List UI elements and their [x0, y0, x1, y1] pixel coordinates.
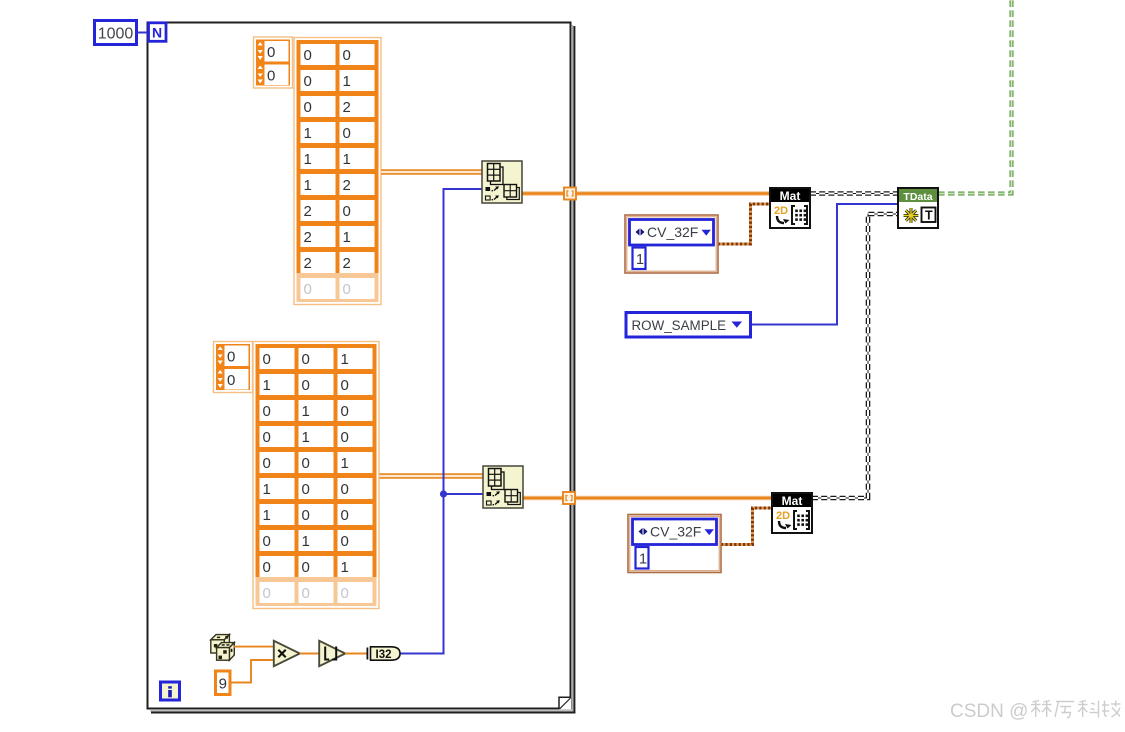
svg-text:0: 0	[302, 559, 310, 576]
svg-text:2D: 2D	[774, 205, 788, 217]
svg-text:1: 1	[343, 151, 351, 168]
svg-text:2: 2	[304, 255, 312, 272]
wire 1000 to N	[137, 32, 149, 34]
wire 9 to multiply	[230, 660, 274, 683]
svg-text:I32: I32	[376, 649, 392, 661]
svg-text:1: 1	[304, 125, 312, 142]
svg-text:0: 0	[341, 585, 349, 602]
svg-text:0: 0	[302, 455, 310, 472]
cluster constant K2 (CV_32F + 1)	[628, 515, 721, 573]
loop resize handle	[559, 697, 571, 709]
2D array constant A1 grid	[296, 40, 380, 303]
svg-text:1: 1	[302, 429, 310, 446]
svg-text:0: 0	[263, 455, 271, 472]
wire ROW_SAMPLE to TData	[751, 204, 899, 325]
svg-text:2: 2	[343, 99, 351, 116]
svg-text:0: 0	[304, 73, 312, 90]
svg-text:0: 0	[341, 429, 349, 446]
svg-text:0: 0	[267, 68, 275, 85]
svg-text:2: 2	[343, 177, 351, 194]
svg-text:0: 0	[341, 377, 349, 394]
wire array A2 to index node U2 (2D array)	[380, 474, 485, 478]
svg-text:TData: TData	[903, 191, 932, 203]
svg-text:0: 0	[302, 351, 310, 368]
svg-text:T: T	[925, 209, 933, 223]
svg-text:1: 1	[341, 455, 349, 472]
svg-text:9: 9	[219, 676, 227, 693]
wire Mat1 to TData (matrix chain)	[810, 193, 898, 195]
svg-text:0: 0	[227, 349, 235, 366]
wire cluster K1 to Mat1	[718, 204, 770, 244]
I32 conversion node	[367, 647, 400, 661]
svg-text:2: 2	[304, 203, 312, 220]
wire U2 to Mat2 (row array)	[523, 496, 772, 501]
svg-text:0: 0	[263, 429, 271, 446]
svg-text:1: 1	[636, 252, 644, 268]
index selector S2	[214, 342, 253, 393]
wire U1 to Mat1 (row array)	[522, 191, 770, 196]
svg-text:0: 0	[302, 377, 310, 394]
for-loop frame	[148, 23, 576, 714]
svg-text:0: 0	[227, 372, 235, 389]
svg-text:1: 1	[304, 177, 312, 194]
svg-text:1000: 1000	[98, 26, 134, 43]
svg-text:0: 0	[343, 47, 351, 64]
svg-text:1: 1	[343, 229, 351, 246]
svg-text:2: 2	[304, 229, 312, 246]
svg-text:2: 2	[343, 255, 351, 272]
svg-text:1: 1	[263, 507, 271, 524]
svg-text:0: 0	[263, 351, 271, 368]
Mat node Mat2	[772, 493, 812, 533]
index selector S1	[254, 37, 293, 88]
multiply node	[274, 641, 300, 666]
svg-text:0: 0	[302, 585, 310, 602]
TData node	[898, 188, 938, 228]
svg-text:0: 0	[302, 507, 310, 524]
wire Mat2 to TData (matrix chain)	[812, 214, 898, 498]
svg-text:0: 0	[302, 481, 310, 498]
svg-text:1: 1	[341, 559, 349, 576]
wire junction node	[440, 490, 447, 497]
wire array A1 to index node U1 (2D array)	[381, 170, 483, 174]
svg-text:0: 0	[341, 507, 349, 524]
svg-text:2D: 2D	[776, 510, 790, 522]
loop tunnel T2	[563, 492, 575, 504]
wire I32 output riser (blue)	[400, 189, 484, 654]
2D array constant A2 grid	[255, 344, 378, 607]
svg-text:CV_32F: CV_32F	[647, 224, 698, 240]
svg-text:0: 0	[343, 281, 351, 298]
wire round to I32	[345, 653, 368, 655]
N terminal	[149, 23, 167, 42]
i iteration terminal	[161, 682, 180, 700]
svg-text:CV_32F: CV_32F	[650, 524, 701, 540]
svg-text:Mat: Mat	[780, 189, 801, 203]
svg-text:1: 1	[302, 403, 310, 420]
index/reshape node U1	[482, 161, 522, 203]
watermark	[950, 701, 1121, 723]
svg-text:0: 0	[341, 403, 349, 420]
svg-text:0: 0	[263, 403, 271, 420]
svg-text:N: N	[152, 25, 162, 41]
cluster constant K1 (CV_32F + 1)	[625, 215, 718, 273]
constant 9	[216, 671, 231, 695]
svg-text:0: 0	[304, 47, 312, 64]
random number dice	[211, 635, 235, 661]
svg-text:0: 0	[263, 559, 271, 576]
wire cluster K2 to Mat2	[721, 508, 772, 545]
svg-text:0: 0	[263, 533, 271, 550]
2D array constant A1 outer border	[294, 38, 381, 305]
enum constant ROW_SAMPLE	[626, 313, 751, 338]
svg-text:1: 1	[304, 151, 312, 168]
wire dice to multiply	[234, 646, 274, 648]
svg-text:0: 0	[304, 281, 312, 298]
wire multiply to round	[300, 653, 320, 655]
svg-text:Mat: Mat	[782, 494, 803, 508]
svg-text:1: 1	[639, 552, 647, 568]
svg-text:CSDN @: CSDN @	[950, 701, 1028, 722]
svg-text:1: 1	[263, 481, 271, 498]
svg-text:0: 0	[267, 44, 275, 61]
svg-text:1: 1	[341, 351, 349, 368]
index/reshape node U2	[483, 466, 523, 508]
loop count constant 1000	[95, 21, 137, 45]
svg-text:1: 1	[343, 73, 351, 90]
Mat node Mat1	[770, 188, 810, 228]
svg-text:1: 1	[302, 533, 310, 550]
round toward -infinity node	[319, 641, 345, 666]
svg-text:0: 0	[263, 585, 271, 602]
wire TData output (green chain)	[938, 0, 1012, 194]
svg-text:ROW_SAMPLE: ROW_SAMPLE	[632, 318, 727, 333]
loop tunnel T1	[564, 188, 576, 200]
svg-text:0: 0	[341, 481, 349, 498]
svg-text:0: 0	[343, 125, 351, 142]
svg-text:0: 0	[343, 203, 351, 220]
2D array constant A2 outer border	[253, 342, 379, 609]
svg-text:0: 0	[341, 533, 349, 550]
svg-text:1: 1	[263, 377, 271, 394]
svg-text:0: 0	[304, 99, 312, 116]
